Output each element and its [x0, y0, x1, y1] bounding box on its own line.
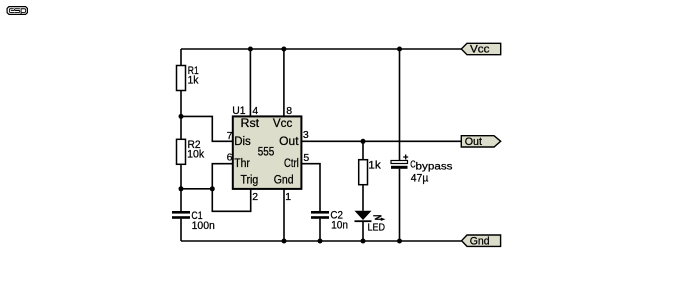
svg-text:Gnd: Gnd	[274, 175, 294, 187]
svg-text:Gnd: Gnd	[470, 236, 490, 248]
svg-text:100n: 100n	[192, 220, 215, 232]
svg-text:bypass: bypass	[416, 162, 453, 173]
svg-text:LED: LED	[368, 222, 386, 234]
svg-text:6: 6	[227, 151, 233, 163]
svg-text:7: 7	[227, 130, 233, 142]
svg-text:Out: Out	[465, 136, 482, 148]
svg-text:1k: 1k	[188, 75, 199, 87]
svg-text:Out: Out	[279, 136, 299, 148]
svg-text:8: 8	[286, 105, 292, 117]
svg-text:Ctrl: Ctrl	[284, 158, 299, 170]
svg-text:1k: 1k	[368, 159, 381, 171]
svg-text:Rst: Rst	[241, 118, 260, 130]
svg-text:Vcc: Vcc	[273, 118, 293, 130]
svg-text:3: 3	[303, 129, 309, 141]
svg-text:Trig: Trig	[241, 175, 259, 187]
svg-text:Vcc: Vcc	[470, 44, 490, 56]
svg-text:U1: U1	[232, 105, 245, 117]
svg-text:Dis: Dis	[234, 136, 251, 148]
svg-text:4: 4	[252, 105, 258, 117]
svg-text:Thr: Thr	[234, 158, 250, 170]
svg-text:2: 2	[252, 191, 258, 203]
svg-text:5: 5	[303, 152, 309, 164]
svg-text:555: 555	[258, 147, 275, 159]
svg-text:10k: 10k	[187, 149, 205, 161]
svg-text:47µ: 47µ	[411, 173, 429, 185]
svg-text:1: 1	[285, 191, 291, 203]
svg-text:10n: 10n	[331, 219, 348, 231]
